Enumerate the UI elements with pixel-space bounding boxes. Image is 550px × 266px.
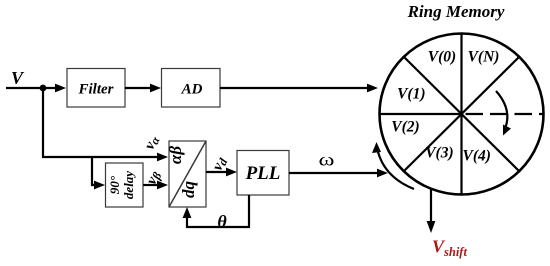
wire AD to ring memory	[220, 84, 378, 93]
block PLL	[237, 151, 289, 196]
block 90 degree delay	[106, 163, 144, 207]
svg-text:dq: dq	[179, 181, 198, 199]
svg-text:Filter: Filter	[77, 82, 113, 98]
curved arrow inside ring (clockwise)	[496, 91, 511, 136]
sector line diagonal SW-NE	[404, 57, 519, 171]
svg-text:V(0): V(0)	[428, 49, 456, 66]
wire dq to PLL	[206, 168, 237, 177]
wire V_shift output arrow	[427, 189, 436, 233]
svg-text:V(N): V(N)	[468, 49, 500, 66]
sector line diagonal NW-SE	[404, 57, 519, 171]
wire junction down and right to alpha input	[43, 88, 168, 161]
block Filter	[67, 69, 125, 108]
svg-text:vα: vα	[142, 133, 163, 153]
label v_d	[210, 154, 231, 174]
svg-text:αβ: αβ	[166, 146, 185, 164]
sector line horizontal right dashed	[466, 113, 544, 115]
block alpha-beta to dq transform	[166, 141, 206, 207]
wire branch down to 90 delay	[92, 157, 105, 189]
svg-text:PLL: PLL	[245, 163, 281, 184]
svg-text:V(1): V(1)	[397, 86, 425, 103]
svg-text:V: V	[11, 68, 25, 88]
sector line vertical	[460, 34, 462, 195]
svg-text:Vshift: Vshift	[432, 237, 467, 260]
svg-text:AD: AD	[181, 82, 203, 98]
svg-text:ω: ω	[319, 150, 335, 170]
ring memory circle	[380, 34, 544, 195]
svg-text:V(3): V(3)	[425, 145, 453, 162]
svg-text:θ: θ	[217, 212, 227, 232]
svg-text:90°: 90°	[107, 175, 122, 194]
wire theta feedback from PLL to dq	[183, 195, 249, 227]
wire delay to beta input	[143, 181, 168, 190]
svg-text:Ring Memory: Ring Memory	[407, 2, 505, 21]
junction dot on V line	[40, 85, 47, 92]
wire PLL to ring (omega)	[289, 169, 388, 178]
svg-text:V(2): V(2)	[391, 119, 419, 136]
curved arrow outside ring (shift direction)	[372, 142, 414, 189]
block AD	[162, 69, 221, 108]
label v_alpha	[142, 133, 163, 153]
label v_beta	[144, 168, 165, 188]
wire input V to Filter	[6, 84, 66, 93]
wire Filter to AD	[125, 84, 161, 93]
sector line horizontal left solid	[380, 113, 462, 115]
svg-text:delay: delay	[121, 171, 136, 199]
svg-text:V(4): V(4)	[462, 148, 490, 165]
